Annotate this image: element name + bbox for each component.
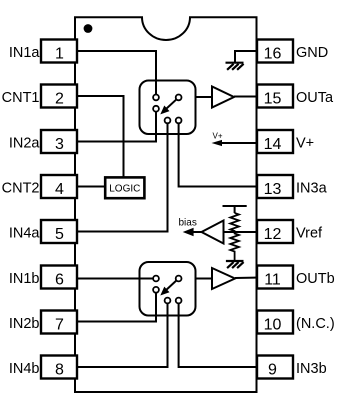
label IN3a bbox=[296, 181, 328, 197]
svg-text:IN4a: IN4a bbox=[9, 226, 41, 242]
svg-text:IN4b: IN4b bbox=[9, 361, 40, 377]
SWb contact bottom-right bbox=[176, 298, 182, 304]
svg-text:5: 5 bbox=[55, 226, 64, 243]
buffer amplifier A1 (OUTa) bbox=[212, 87, 234, 108]
svg-text:CNT1: CNT1 bbox=[2, 90, 40, 106]
label bias bbox=[179, 218, 197, 229]
label OUTa bbox=[296, 90, 334, 106]
svg-text:4: 4 bbox=[55, 181, 64, 198]
wire SWb bottom stubs bbox=[156, 291, 179, 322]
wire bias output bbox=[190, 231, 202, 233]
wire pin4 CNT2 to LOGIC block bbox=[77, 186, 105, 188]
pin 7 box bbox=[41, 311, 77, 334]
wire pin13 IN3a to switch SWa bottom-right contact bbox=[179, 122, 258, 187]
resistor R1 bbox=[230, 213, 239, 232]
svg-text:Vref: Vref bbox=[296, 226, 323, 242]
pin 2 box bbox=[41, 85, 77, 108]
label IN1a bbox=[9, 45, 41, 61]
IC package body U1 with index notch bbox=[75, 17, 257, 392]
svg-text:8: 8 bbox=[55, 362, 64, 379]
svg-text:14: 14 bbox=[264, 136, 282, 153]
svg-text:OUTa: OUTa bbox=[296, 90, 334, 106]
wire pin2 CNT1 to LOGIC block bbox=[77, 96, 124, 177]
wire Vref node to pin12 bbox=[224, 231, 259, 233]
label Vref bbox=[296, 226, 323, 242]
wire pin9 IN3b to switch SWb bottom-right contact bbox=[179, 303, 258, 367]
svg-text:LOGIC: LOGIC bbox=[109, 183, 140, 194]
label GND bbox=[296, 45, 328, 61]
pin 8 box bbox=[41, 356, 77, 379]
svg-text:1: 1 bbox=[55, 46, 64, 63]
internal supply rail bar bbox=[223, 205, 247, 207]
pin 4 box bbox=[41, 175, 77, 198]
pin 16 box bbox=[257, 40, 293, 63]
svg-text:IN1a: IN1a bbox=[9, 45, 41, 61]
wire buffer A1 output to pin15 OUTa bbox=[234, 96, 258, 98]
svg-text:13: 13 bbox=[264, 181, 282, 198]
pin 13 box bbox=[257, 175, 293, 198]
wire pin8 IN4b to switch SWb bottom-left contact bbox=[77, 303, 168, 367]
SWb contact top-left bbox=[153, 276, 159, 282]
pin 1 box bbox=[41, 40, 77, 63]
wire rail to resistor R1 bbox=[234, 206, 236, 213]
wire pin6 IN1b to switch SWb top-left contact bbox=[77, 278, 154, 280]
SWa contact mid-left bbox=[153, 106, 159, 112]
label (N.C.) bbox=[296, 316, 335, 332]
label IN4b bbox=[9, 361, 40, 377]
SWa contact bottom-left bbox=[165, 118, 171, 124]
buffer amplifier A2 (OUTb) bbox=[212, 268, 235, 289]
svg-text:10: 10 bbox=[264, 317, 282, 334]
wire pin14 V+ supply bbox=[219, 142, 258, 144]
ground symbol below R2 bbox=[226, 261, 244, 268]
svg-text:15: 15 bbox=[264, 91, 282, 108]
wire pin3 IN2a to switch SWa mid-left contact bbox=[77, 110, 156, 142]
svg-text:IN1b: IN1b bbox=[9, 271, 40, 287]
SWa contact right bbox=[176, 95, 182, 101]
pin 6 box bbox=[41, 266, 77, 289]
label IN1b bbox=[9, 271, 40, 287]
pin 14 box bbox=[257, 130, 293, 153]
svg-text:3: 3 bbox=[55, 136, 64, 153]
SWb contact mid-left bbox=[153, 287, 159, 293]
label IN3b bbox=[296, 361, 327, 377]
svg-text:OUTb: OUTb bbox=[296, 271, 335, 287]
V+ arrowhead bbox=[212, 140, 223, 146]
label V+ bbox=[213, 132, 223, 141]
label CNT1 bbox=[2, 90, 40, 106]
svg-text:IN3b: IN3b bbox=[296, 361, 327, 377]
svg-text:V+: V+ bbox=[296, 136, 314, 152]
label IN4a bbox=[9, 226, 41, 242]
wire pin7 IN2b to switch SWb mid-left contact bbox=[77, 291, 156, 322]
wire SWb left stub bbox=[140, 278, 155, 280]
wire switch SWb output to buffer A2 input bbox=[180, 278, 212, 280]
svg-text:9: 9 bbox=[268, 362, 277, 379]
wire switch SWa output to buffer A1 input bbox=[180, 96, 212, 98]
label IN2b bbox=[9, 316, 40, 332]
svg-text:bias: bias bbox=[179, 218, 197, 229]
svg-text:V+: V+ bbox=[213, 132, 223, 141]
LOGIC block bbox=[105, 177, 144, 198]
switch block SWb bbox=[140, 262, 196, 316]
SWb contact right bbox=[176, 276, 182, 282]
pin 10 box bbox=[257, 311, 293, 334]
svg-text:(N.C.): (N.C.) bbox=[296, 316, 335, 332]
label CNT2 bbox=[2, 181, 40, 197]
svg-text:CNT2: CNT2 bbox=[2, 181, 40, 197]
wire pin16 GND to internal ground bbox=[235, 51, 258, 62]
label IN2a bbox=[9, 136, 41, 152]
pin 3 box bbox=[41, 130, 77, 153]
SWa contact top-left bbox=[153, 95, 159, 101]
wire pin1 IN1a to switch SWa top-left contact bbox=[77, 51, 156, 95]
pin 15 box bbox=[257, 85, 293, 108]
pin 5 box bbox=[41, 220, 77, 243]
svg-text:12: 12 bbox=[264, 226, 282, 243]
svg-text:11: 11 bbox=[264, 272, 281, 289]
pin 9 box bbox=[257, 356, 293, 379]
svg-text:7: 7 bbox=[55, 317, 64, 334]
svg-text:IN2a: IN2a bbox=[9, 136, 41, 152]
pin 1 indicator dot bbox=[84, 24, 93, 33]
wire buffer A2 output to pin11 OUTb bbox=[235, 277, 258, 280]
wire SWa top-left stub bbox=[155, 81, 157, 96]
svg-text:IN3a: IN3a bbox=[296, 181, 328, 197]
bias arrowhead bbox=[183, 228, 194, 237]
SWb contact bottom-left bbox=[165, 298, 171, 304]
resistor R2 bbox=[230, 232, 239, 260]
switch SWa wiper arrow bbox=[160, 99, 176, 114]
wire pin5 IN4a to switch SWa bottom-left contact bbox=[77, 122, 168, 232]
ground symbol at pin16 bbox=[226, 63, 244, 70]
svg-text:IN2b: IN2b bbox=[9, 316, 40, 332]
svg-text:GND: GND bbox=[296, 45, 328, 61]
svg-text:16: 16 bbox=[264, 46, 282, 63]
switch block SWa bbox=[140, 81, 196, 135]
label V+ pin14 bbox=[296, 136, 314, 152]
SWa contact bottom-right bbox=[176, 118, 182, 124]
svg-text:2: 2 bbox=[55, 91, 64, 108]
label OUTb bbox=[296, 271, 335, 287]
wire SWa bottom stubs bbox=[156, 110, 179, 141]
pin 11 box bbox=[257, 266, 293, 289]
pin 12 box bbox=[257, 220, 293, 243]
svg-text:6: 6 bbox=[55, 272, 64, 289]
switch SWb wiper arrow bbox=[160, 280, 176, 295]
bias amplifier A3 bbox=[202, 221, 224, 244]
